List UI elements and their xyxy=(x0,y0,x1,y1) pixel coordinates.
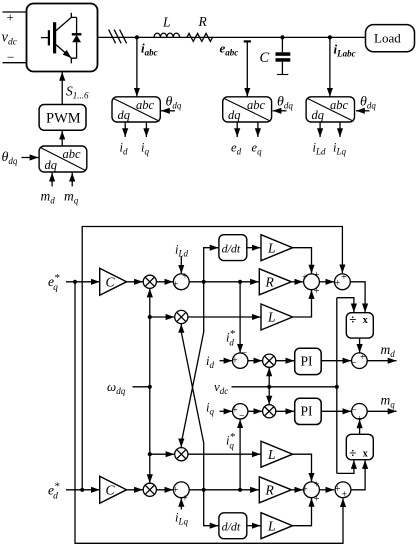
output i_q xyxy=(145,122,147,137)
wire e_d* to gain C xyxy=(66,489,100,491)
svg-text:+: + xyxy=(232,356,238,367)
svg-text:÷: ÷ xyxy=(349,311,356,326)
multiplier X1 xyxy=(143,275,156,288)
svg-text:θdq: θdq xyxy=(2,150,18,166)
abc/dq transform block T2 xyxy=(223,97,272,122)
wire i_d input xyxy=(220,360,233,362)
gain C q-channel xyxy=(100,476,127,503)
divider block q-channel xyxy=(346,434,373,460)
resistor R xyxy=(187,33,213,41)
svg-text:C: C xyxy=(106,483,116,498)
svg-text:iLq: iLq xyxy=(333,141,346,157)
svg-text:L: L xyxy=(267,447,276,462)
node omega junction xyxy=(148,385,152,389)
input m_d xyxy=(51,173,53,187)
summer S5 xyxy=(173,482,190,504)
svg-text:+: + xyxy=(7,10,14,25)
wire v_dc to divider d xyxy=(337,298,354,313)
svg-text:i*d: i*d xyxy=(226,328,235,347)
svg-text:iq: iq xyxy=(206,401,214,417)
gain L3 xyxy=(261,441,293,467)
wire - terminal xyxy=(3,62,27,64)
wire divider to M1 xyxy=(359,338,361,353)
svg-text:+: + xyxy=(232,405,238,416)
svg-text:S1...6: S1...6 xyxy=(66,84,89,101)
wire omega down to X6 xyxy=(149,387,151,483)
svg-text:x: x xyxy=(363,449,368,460)
summer S3 xyxy=(334,272,350,289)
gain L1 xyxy=(261,235,293,261)
wire divider to M2 xyxy=(359,420,361,435)
output m_q xyxy=(367,410,396,412)
svg-text:+: + xyxy=(182,271,188,282)
svg-text:+: + xyxy=(334,278,340,289)
svg-text:L: L xyxy=(267,518,276,533)
wire + terminal xyxy=(3,11,27,13)
svg-text:iq: iq xyxy=(141,141,149,157)
wire 3-phase output xyxy=(97,36,365,38)
abc/dq transform block T1 xyxy=(112,97,160,122)
node e_q* junction xyxy=(73,280,77,284)
wire d/dt to L1 xyxy=(247,247,261,249)
svg-text:θdq: θdq xyxy=(360,95,376,111)
wire E2 to X5 xyxy=(248,410,262,412)
node v_dc riser junction xyxy=(335,385,339,389)
svg-text:C: C xyxy=(260,50,270,66)
svg-text:abc: abc xyxy=(136,98,155,112)
wire L3 to S4 top xyxy=(293,454,312,481)
multiplier X4 xyxy=(263,354,276,367)
multiplier X2 xyxy=(175,310,188,323)
multiplier X3 xyxy=(175,448,188,461)
svg-text:+: + xyxy=(314,286,320,297)
wire R to summer S2 xyxy=(291,281,303,283)
wire i_d* to error summer E1 xyxy=(239,282,241,353)
node i_d* branch junction xyxy=(238,280,242,284)
wire omega to X3 xyxy=(150,453,175,455)
cross-coupling wire q to d xyxy=(181,324,203,490)
output i_Lq xyxy=(339,122,341,137)
wire v_dc to divider q xyxy=(337,460,354,473)
dq/abc modulator block T4 xyxy=(39,146,87,172)
PI block d-channel xyxy=(295,348,322,374)
svg-text:dq: dq xyxy=(312,108,325,122)
svg-text:PI: PI xyxy=(301,404,314,419)
wire PI to M2 xyxy=(321,410,351,412)
wire L2 to S2 bottom xyxy=(293,290,312,317)
svg-text:C: C xyxy=(106,275,116,290)
svg-text:mq: mq xyxy=(64,189,79,206)
svg-text:mq: mq xyxy=(381,393,396,410)
svg-text:+: + xyxy=(335,484,341,495)
svg-text:iLabc: iLabc xyxy=(334,42,356,59)
output e_d xyxy=(236,122,238,137)
summer S4 xyxy=(302,479,320,505)
wire e_q* to gain C xyxy=(66,281,100,283)
svg-text:+: + xyxy=(173,279,179,290)
wire S1 output to R xyxy=(189,281,259,283)
wire X5 to PI q xyxy=(276,410,295,412)
svg-text:ed: ed xyxy=(231,141,242,157)
output i_Ld xyxy=(319,122,321,137)
wire e_q* feedforward loop xyxy=(75,282,343,544)
diode D1 antiparallel xyxy=(72,17,82,58)
svg-text:x: x xyxy=(363,315,368,326)
gain R d-channel xyxy=(259,269,291,295)
gain L2 xyxy=(261,304,293,330)
wire S5 output to R q xyxy=(189,489,259,491)
svg-text:id: id xyxy=(120,141,128,157)
output e_q xyxy=(257,122,259,137)
wire S4 to S6 xyxy=(319,489,334,491)
svg-text:L: L xyxy=(267,240,276,255)
svg-text:+: + xyxy=(302,272,308,283)
wire v_dc distribution xyxy=(232,386,337,388)
svg-text:id: id xyxy=(206,354,214,370)
gain L4 xyxy=(261,513,293,539)
wire X6 to summer S5 xyxy=(156,489,173,491)
PI block q-channel xyxy=(295,398,322,424)
svg-text:abc: abc xyxy=(247,98,266,112)
svg-text:R: R xyxy=(265,483,275,498)
wire X4 to PI d xyxy=(276,360,295,362)
svg-text:+: + xyxy=(357,414,363,425)
svg-text:abc: abc xyxy=(330,98,349,112)
error summer E2 xyxy=(232,404,248,422)
wire omega_dq input xyxy=(133,386,150,388)
svg-text:eq: eq xyxy=(252,141,263,157)
wire S6 to divider q xyxy=(351,460,365,490)
svg-text:−: − xyxy=(241,347,247,358)
svg-text:d/dt: d/dt xyxy=(222,241,241,255)
wire branch to d/dt q xyxy=(204,490,219,526)
output m_d xyxy=(367,360,396,362)
svg-text:L: L xyxy=(162,15,171,30)
svg-text:vdc: vdc xyxy=(214,379,228,396)
wire X2 to L2 xyxy=(188,316,261,318)
wire L1 to S2 top xyxy=(293,248,312,274)
node v_dc junction xyxy=(267,385,271,389)
wire PI to M1 xyxy=(321,360,351,362)
wire E1 to X4 xyxy=(248,360,262,362)
svg-text:+: + xyxy=(314,479,320,490)
svg-text:dq: dq xyxy=(228,108,241,122)
wire X1 to summer S1 xyxy=(156,281,173,283)
wire v_dc to X4 xyxy=(268,368,270,387)
cross-coupling wire d to q xyxy=(181,282,203,448)
svg-text:PI: PI xyxy=(301,354,314,369)
svg-text:i*q: i*q xyxy=(226,431,235,450)
summer S2 xyxy=(302,270,320,297)
summer M1 xyxy=(351,352,367,369)
transistor Q1 IGBT xyxy=(41,13,77,64)
svg-text:e*q: e*q xyxy=(48,272,60,293)
wire v_dc riser xyxy=(336,298,338,474)
svg-text:θdq: θdq xyxy=(166,95,182,111)
svg-text:ωdq: ωdq xyxy=(107,379,126,396)
summer M2 xyxy=(351,404,367,425)
wire S3 to divider xyxy=(350,282,365,313)
svg-text:eabc: eabc xyxy=(220,41,239,58)
node i_q* junction xyxy=(202,488,206,492)
error summer E1 xyxy=(232,347,248,368)
wire i_q* to error summer E2 xyxy=(239,419,241,489)
multiplier X6 xyxy=(143,483,156,496)
capacitor C xyxy=(276,35,291,74)
wire i_abc measurement drop xyxy=(136,37,138,96)
wire i_q input xyxy=(220,410,233,412)
inductor L xyxy=(154,33,180,37)
svg-text:vdc: vdc xyxy=(2,30,18,48)
svg-text:iLq: iLq xyxy=(175,511,188,527)
svg-text:e*d: e*d xyxy=(48,481,60,502)
input m_q xyxy=(71,173,73,187)
node i_d* junction xyxy=(202,280,206,284)
wire S2 to S3 xyxy=(319,281,334,283)
svg-text:+: + xyxy=(314,494,320,505)
d/dt block d-channel xyxy=(219,235,247,261)
wire i_Labc measurement drop xyxy=(329,37,331,96)
svg-text:+: + xyxy=(173,485,179,496)
svg-text:iabc: iabc xyxy=(141,41,158,58)
abc/dq transform block T3 xyxy=(306,97,354,122)
wire T4 to PWM xyxy=(61,131,63,146)
svg-text:+: + xyxy=(341,489,347,500)
node e_d* junction xyxy=(80,488,84,492)
svg-text:md: md xyxy=(41,189,56,206)
svg-text:+: + xyxy=(182,493,188,504)
svg-text:R: R xyxy=(198,14,208,29)
svg-text:md: md xyxy=(381,342,396,359)
node i_abc junction xyxy=(135,35,139,39)
multiplier X5 xyxy=(263,405,276,418)
output i_d xyxy=(124,122,126,137)
svg-text:L: L xyxy=(267,310,276,325)
summer S6 xyxy=(335,482,351,500)
svg-text:+: + xyxy=(314,270,320,281)
svg-text:d/dt: d/dt xyxy=(222,519,241,533)
node omega lower junction xyxy=(148,452,152,456)
load block xyxy=(366,25,415,52)
summer S1 xyxy=(173,271,190,290)
node omega upper junction xyxy=(148,315,152,319)
svg-text:+: + xyxy=(360,352,366,363)
svg-text:Load: Load xyxy=(374,31,401,46)
wire S1..6 gate signals xyxy=(61,72,63,105)
svg-text:dq: dq xyxy=(45,158,58,172)
PWM block xyxy=(39,105,86,131)
wire branch to d/dt d xyxy=(204,248,219,282)
svg-text:abc: abc xyxy=(63,147,82,161)
wire e_d* feedforward loop xyxy=(82,227,342,490)
wire d/dt to L4 xyxy=(247,525,261,527)
svg-text:−: − xyxy=(351,357,357,368)
wire omega up to X1 xyxy=(149,289,151,387)
svg-text:dq: dq xyxy=(118,108,131,122)
wire C to X6 xyxy=(127,489,143,491)
svg-text:÷: ÷ xyxy=(349,445,356,460)
wire omega to X2 xyxy=(150,316,175,318)
svg-text:iLd: iLd xyxy=(313,141,326,157)
wire R to summer S4 xyxy=(291,489,303,491)
e_abc measurement tap xyxy=(244,40,251,42)
3-phase slash marks xyxy=(109,30,127,44)
wire v_dc to X5 xyxy=(268,387,270,405)
svg-text:+: + xyxy=(302,484,308,495)
node i_q* branch junction xyxy=(238,488,242,492)
wire L4 to S4 bottom xyxy=(293,498,312,526)
d/dt block q-channel xyxy=(219,513,247,539)
gain R q-channel xyxy=(259,477,291,503)
svg-text:R: R xyxy=(265,275,275,290)
svg-text:−: − xyxy=(7,49,14,64)
inverter U1 box xyxy=(27,4,98,72)
svg-text:PWM: PWM xyxy=(46,111,81,127)
node i_Labc junction xyxy=(328,35,332,39)
svg-text:+: + xyxy=(341,272,347,283)
svg-text:−: − xyxy=(239,411,245,422)
divider block d-channel xyxy=(346,311,373,338)
wire C to X1 xyxy=(127,281,143,283)
svg-text:iLd: iLd xyxy=(175,243,188,259)
wire X3 to L3 xyxy=(188,453,261,455)
gain C d-channel xyxy=(100,268,127,295)
svg-text:θdq: θdq xyxy=(277,95,293,111)
